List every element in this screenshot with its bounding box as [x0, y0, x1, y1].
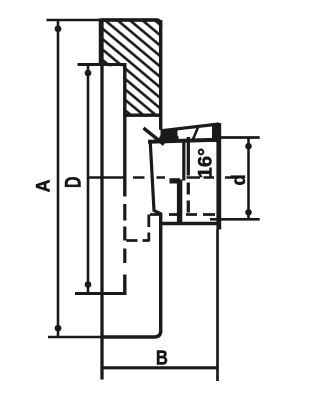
dimension line d: [247, 138, 250, 220]
wheel left face line: [100, 18, 103, 379]
rim right face line: [159, 20, 162, 130]
bore cone top edge: [148, 140, 218, 142]
svg-text:B: B: [156, 346, 168, 369]
extension line D bottom / recess shoulder edge (mirror): [75, 292, 127, 295]
extension line D top / recess shoulder edge: [78, 63, 127, 66]
hub right face line: [216, 123, 221, 230]
hub bottom edge: [161, 222, 219, 225]
web root hatch stroke: [144, 128, 165, 145]
web cone band section white: [161, 123, 221, 142]
web root dark corner: [157, 132, 163, 144]
svg-text:16°: 16°: [195, 148, 217, 179]
web inner face line: [150, 141, 161, 214]
disc right face line: [102, 213, 161, 338]
dot terminator A top: [55, 25, 62, 32]
dot terminator D bottom: [85, 281, 92, 288]
hub left face line upper: [182, 142, 185, 181]
rim outline: [100, 20, 160, 66]
web cone bottom edge: [161, 137, 179, 140]
extension line d top: [221, 136, 260, 139]
dot terminator D top: [85, 70, 92, 77]
bore hidden line (solid upper): [187, 137, 190, 176]
web cone top edge: [161, 124, 220, 131]
extension line d bottom: [210, 218, 260, 221]
recess edge line (hidden dashes): [123, 204, 126, 263]
band hatch stroke: [192, 126, 199, 141]
dot terminator d top: [245, 143, 252, 150]
rim inner edge: [123, 113, 159, 116]
band right dark block: [212, 124, 221, 142]
rim section (hatched): [100, 19, 162, 117]
hub left face nub: [170, 178, 181, 183]
extension line A top: [47, 19, 105, 22]
dimension line D: [87, 65, 90, 294]
band left dark block: [161, 128, 178, 142]
dot terminator A bottom: [55, 325, 62, 332]
bore hidden line (dashes): [187, 183, 190, 213]
recess edge line (solid lower): [123, 275, 126, 296]
hidden rim inner edge (dashed): [126, 239, 149, 242]
extension line B right: [216, 230, 219, 382]
centerline (axis): [89, 176, 236, 179]
recess edge line (solid upper): [123, 65, 126, 197]
svg-text:d: d: [228, 174, 250, 185]
rim top edge: [102, 18, 158, 21]
svg-text:A: A: [32, 179, 54, 192]
extension line A bottom / wheel bottom edge: [48, 336, 104, 339]
hidden hub outer edge (dashed): [150, 213, 215, 216]
dot terminator d bottom: [245, 209, 252, 216]
hub left face column: [177, 180, 182, 224]
svg-text:D: D: [61, 176, 86, 188]
hidden web face (dashed vertical): [147, 215, 150, 242]
dimension line A: [57, 20, 60, 337]
dimension line B: [104, 366, 217, 369]
